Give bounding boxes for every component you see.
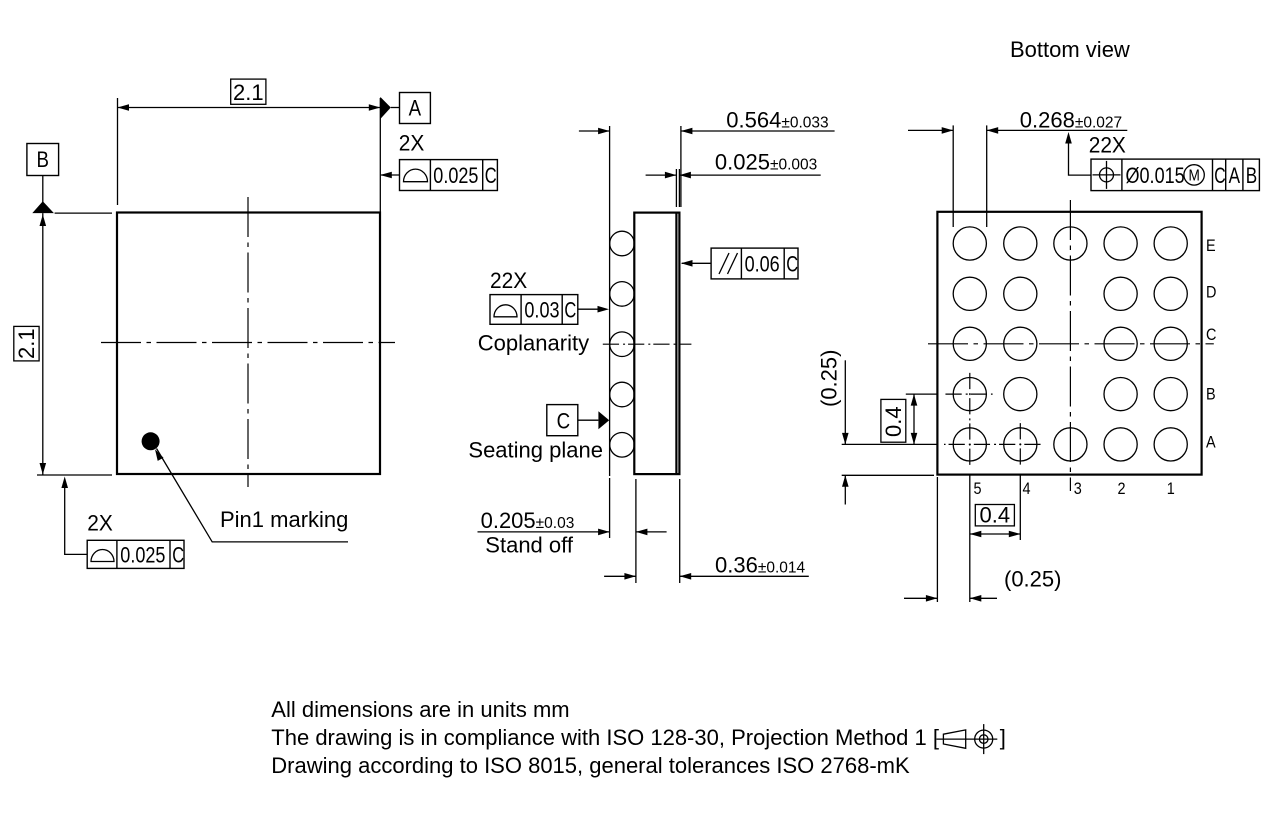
svg-text:4: 4	[1023, 480, 1031, 498]
backside layer line	[675, 213, 677, 475]
row B centerline segment	[944, 393, 993, 395]
svg-text:C: C	[1214, 165, 1226, 189]
FCF coplanarity leader arrow	[578, 308, 600, 310]
package body (side view)	[634, 213, 679, 475]
FCF profile symbol (half disc)	[404, 169, 428, 182]
svg-text:2.1: 2.1	[233, 80, 264, 105]
dimension 0.36: dimension line with outside arrows	[604, 575, 636, 577]
svg-text:22X: 22X	[490, 269, 527, 294]
column 5 centerline segment	[969, 371, 971, 468]
modifier circled M	[1184, 165, 1204, 185]
ball grid: row B (B3 missing)	[953, 378, 986, 411]
dimension 2.1 horizontal: extension line left	[117, 98, 119, 205]
horizontal centerline	[101, 342, 395, 344]
dimension 0.4 left: dimension line with inside arrows	[913, 394, 915, 444]
projection method symbol: cone	[943, 730, 965, 748]
solder bump D	[610, 282, 635, 307]
dimension 0.205: dimension line with outside arrows	[478, 531, 610, 533]
FCF profile 0.025 C (bottom left): frame	[87, 540, 184, 568]
svg-text:B: B	[1206, 385, 1216, 403]
svg-text:The drawing is in compliance w: The drawing is in compliance with ISO 12…	[271, 725, 939, 750]
dimension 0.36: extension line right	[679, 479, 681, 583]
datum C: leader	[578, 419, 599, 421]
svg-text:C: C	[172, 543, 184, 568]
svg-text:A: A	[409, 97, 422, 121]
svg-text:2: 2	[1118, 480, 1126, 498]
package body outline (top view)	[117, 213, 380, 475]
svg-text:0.025: 0.025	[433, 164, 478, 188]
datum B: triangle	[32, 201, 54, 213]
datum A: leader	[391, 107, 400, 109]
ball grid: row D (D3 missing)	[953, 277, 986, 310]
svg-text:2X: 2X	[399, 131, 425, 156]
column 3 centerline	[1069, 200, 1071, 491]
dimension 0.4 left: boxed value rotated	[881, 399, 906, 442]
seating plane line	[609, 126, 611, 476]
datum A: frame	[400, 93, 431, 124]
dimension 0.564: extension line right	[680, 126, 682, 207]
svg-text:0.4: 0.4	[980, 503, 1011, 528]
svg-text:Coplanarity: Coplanarity	[478, 330, 589, 355]
FCF profile symbol (half disc)	[494, 305, 517, 317]
datum C: frame	[547, 405, 578, 436]
dimension 0.268: extension lines down to ball E5	[952, 125, 954, 227]
FCF profile symbol (half disc)	[91, 550, 114, 562]
row A centerline segment	[944, 443, 1042, 445]
svg-text:2.1: 2.1	[14, 328, 39, 359]
dimension 2.1 horizontal: dimension line	[118, 107, 381, 109]
parallelism symbol //	[719, 253, 729, 274]
svg-text:Seating plane: Seating plane	[468, 438, 603, 463]
dimension 0.4 bottom: boxed value	[975, 505, 1014, 526]
svg-text:0.03: 0.03	[524, 299, 559, 323]
row A extension line (solid)	[842, 443, 938, 445]
horizontal centerline (side view)	[601, 343, 692, 345]
svg-text:B: B	[1246, 164, 1257, 189]
column 5 extension line (solid)	[969, 475, 971, 602]
svg-text:0.025: 0.025	[120, 544, 165, 568]
svg-text:B: B	[37, 149, 49, 173]
svg-text:A: A	[1229, 164, 1241, 189]
svg-text:All dimensions are in units mm: All dimensions are in units mm	[271, 697, 569, 722]
top edge extension to left (for datum B)	[55, 212, 112, 214]
svg-text:C: C	[557, 410, 571, 434]
svg-text:22X: 22X	[1089, 133, 1126, 158]
FCF position: frame	[1091, 159, 1259, 191]
bottom edge extension to left	[37, 474, 112, 476]
datum C: triangle	[598, 411, 609, 429]
solder bump B	[610, 382, 635, 407]
svg-text:5: 5	[974, 480, 982, 498]
FCF position leader with up arrow	[1069, 135, 1092, 175]
svg-text:M: M	[1189, 168, 1200, 185]
package outline (bottom view)	[937, 212, 1201, 475]
svg-text:3: 3	[1074, 480, 1082, 498]
svg-text:Drawing according to ISO 8015,: Drawing according to ISO 8015, general t…	[271, 753, 910, 778]
dimension 2.1 vertical: dimension line	[42, 213, 44, 474]
datum B: frame	[27, 144, 59, 176]
svg-text:0.06: 0.06	[745, 253, 780, 277]
svg-text:]: ]	[1000, 725, 1006, 750]
FCF leader arrow (top right)	[381, 174, 400, 176]
svg-text:A: A	[1206, 433, 1216, 451]
solder bump A	[610, 433, 635, 458]
column 4 centerline segment	[1019, 420, 1021, 468]
ball grid: row E	[953, 227, 986, 260]
dimension 0.564: dimension line with outside arrows	[579, 130, 610, 132]
bottom edge extension to left	[842, 474, 934, 476]
ball grid: row C (C3 missing)	[953, 327, 986, 360]
svg-text:Stand off: Stand off	[485, 533, 574, 558]
solder bump E	[610, 231, 635, 256]
column 4 extension line (solid)	[1019, 475, 1021, 540]
dimension (0.25) bottom: left edge extension down	[936, 477, 938, 602]
row B extension line (solid)	[906, 393, 938, 395]
datum A: triangle on extension line	[380, 97, 391, 119]
dimension (0.25) bottom: dimension line with outside arrows	[904, 597, 937, 599]
FCF profile 0.025 C (top right): frame	[400, 160, 498, 191]
svg-text:1: 1	[1167, 480, 1175, 498]
svg-text:D: D	[1206, 284, 1216, 302]
solder bump C	[610, 332, 635, 357]
svg-text:Ø0.015: Ø0.015	[1126, 164, 1185, 188]
dimension 0.025: dimension line with outside arrows	[646, 174, 677, 176]
svg-text:C: C	[485, 164, 497, 189]
dimension 0.205 stand off: extension lines	[609, 478, 611, 538]
svg-text:(0.25): (0.25)	[1004, 567, 1061, 592]
dimension 0.268: dimension line with outside arrows	[908, 129, 953, 131]
svg-text:C: C	[786, 252, 798, 277]
row C centerline	[928, 343, 1214, 345]
datum B: leader	[42, 176, 44, 203]
projection method symbol: circles	[975, 730, 993, 748]
FCF parallelism // 0.06 C: frame	[711, 248, 798, 279]
svg-text:2X: 2X	[87, 511, 113, 536]
ball grid: row A	[953, 428, 986, 461]
pin1 leader wire	[157, 449, 349, 542]
svg-text:Pin1 marking: Pin1 marking	[220, 507, 348, 532]
dimension (0.25) left: dimension line with outside arrows	[844, 360, 846, 444]
dimension 2.1 vertical: boxed value (rotated)	[14, 326, 39, 361]
svg-text:E: E	[1206, 237, 1216, 255]
svg-text:(0.25): (0.25)	[816, 350, 841, 407]
pin1 marking dot	[142, 432, 160, 450]
vertical centerline	[247, 197, 249, 487]
FCF coplanarity 0.03 C: frame	[490, 295, 578, 325]
svg-text:C: C	[564, 298, 576, 323]
svg-text:0.4: 0.4	[881, 406, 906, 437]
svg-text:C: C	[1206, 326, 1216, 344]
dimension 0.4 bottom: dimension line with inside arrows	[970, 533, 1021, 535]
dimension 2.1 horizontal: boxed value	[231, 79, 266, 104]
pin1 leader arrowhead	[155, 449, 164, 461]
FCF parallelism leader arrow	[682, 262, 711, 264]
FCF profile 0.025 C (bottom left): leader with up arrow	[65, 479, 88, 554]
projection method symbol: centerlines	[936, 738, 997, 740]
position symbol	[1100, 168, 1114, 182]
dimension 2.1 horizontal: extension line right	[379, 98, 381, 212]
dimension 0.025: extension lines	[675, 169, 677, 207]
svg-text:Bottom view: Bottom view	[1010, 37, 1130, 62]
